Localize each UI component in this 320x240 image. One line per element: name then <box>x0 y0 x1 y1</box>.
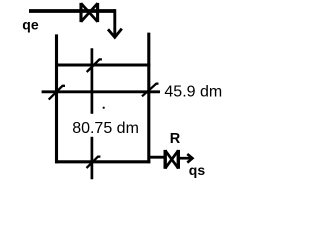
svg-text:qe: qe <box>22 17 39 33</box>
svg-text:R: R <box>170 131 181 147</box>
svg-text:80.75 dm: 80.75 dm <box>72 120 139 137</box>
svg-text:qs: qs <box>189 162 206 178</box>
svg-text:45.9 dm: 45.9 dm <box>164 83 222 100</box>
